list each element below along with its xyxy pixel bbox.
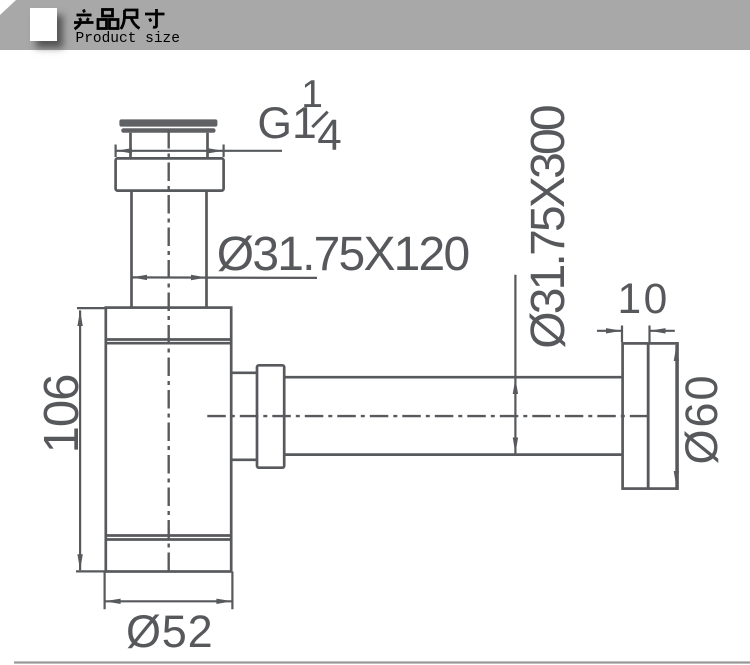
label 106 (vertical) — [37, 364, 87, 464]
label G1 — [257, 99, 316, 149]
dim G1 1/4 line — [116, 145, 224, 158]
hanzi CHI (rule/size) strokes — [121, 10, 140, 29]
label O52 — [126, 606, 213, 658]
dim O60 — [675, 345, 677, 488]
wall flange disc — [648, 343, 677, 488]
label 1 (numerator) — [301, 73, 323, 117]
bottle body — [106, 308, 231, 572]
dim 106 — [76, 308, 106, 571]
header chinese title 产品尺寸 (drawn strokes) — [70, 6, 170, 32]
top nut — [116, 158, 224, 190]
label O60 (vertical) — [679, 369, 725, 469]
wall flange ring — [623, 343, 649, 488]
center line vertical — [169, 128, 648, 571]
dim tube width line — [132, 276, 318, 279]
hanzi CUN (inch/size) strokes — [145, 9, 165, 27]
fraction slash of G1 1/4 — [312, 112, 327, 127]
header subtitle — [76, 31, 180, 47]
bottom rule — [14, 661, 750, 663]
label 10 — [618, 276, 670, 324]
header white square — [30, 8, 57, 41]
bottle bottom band lines — [106, 536, 231, 540]
bottle rim lines — [106, 340, 231, 344]
dim 10 — [622, 326, 650, 343]
label O31.75X300 (vertical) — [525, 98, 573, 358]
horizontal pipe — [284, 377, 622, 454]
tail tube walls — [132, 191, 207, 308]
hanzi CHAN (product) strokes — [74, 10, 94, 30]
top disc (filled cap) — [119, 119, 217, 126]
upper tube walls — [131, 133, 208, 159]
hanzi PIN (goods) strokes — [98, 10, 118, 29]
header banner — [0, 0, 750, 50]
center line horizontal — [207, 415, 647, 417]
outlet stub — [231, 373, 257, 460]
dim pipe dia — [514, 275, 516, 454]
label 4 (denominator) — [317, 111, 341, 161]
dim O52 — [105, 572, 233, 610]
dimension graphics — [76, 145, 679, 610]
label O31.75X120 — [217, 227, 469, 282]
top washer bar — [121, 128, 215, 133]
pipe nut — [257, 365, 284, 467]
